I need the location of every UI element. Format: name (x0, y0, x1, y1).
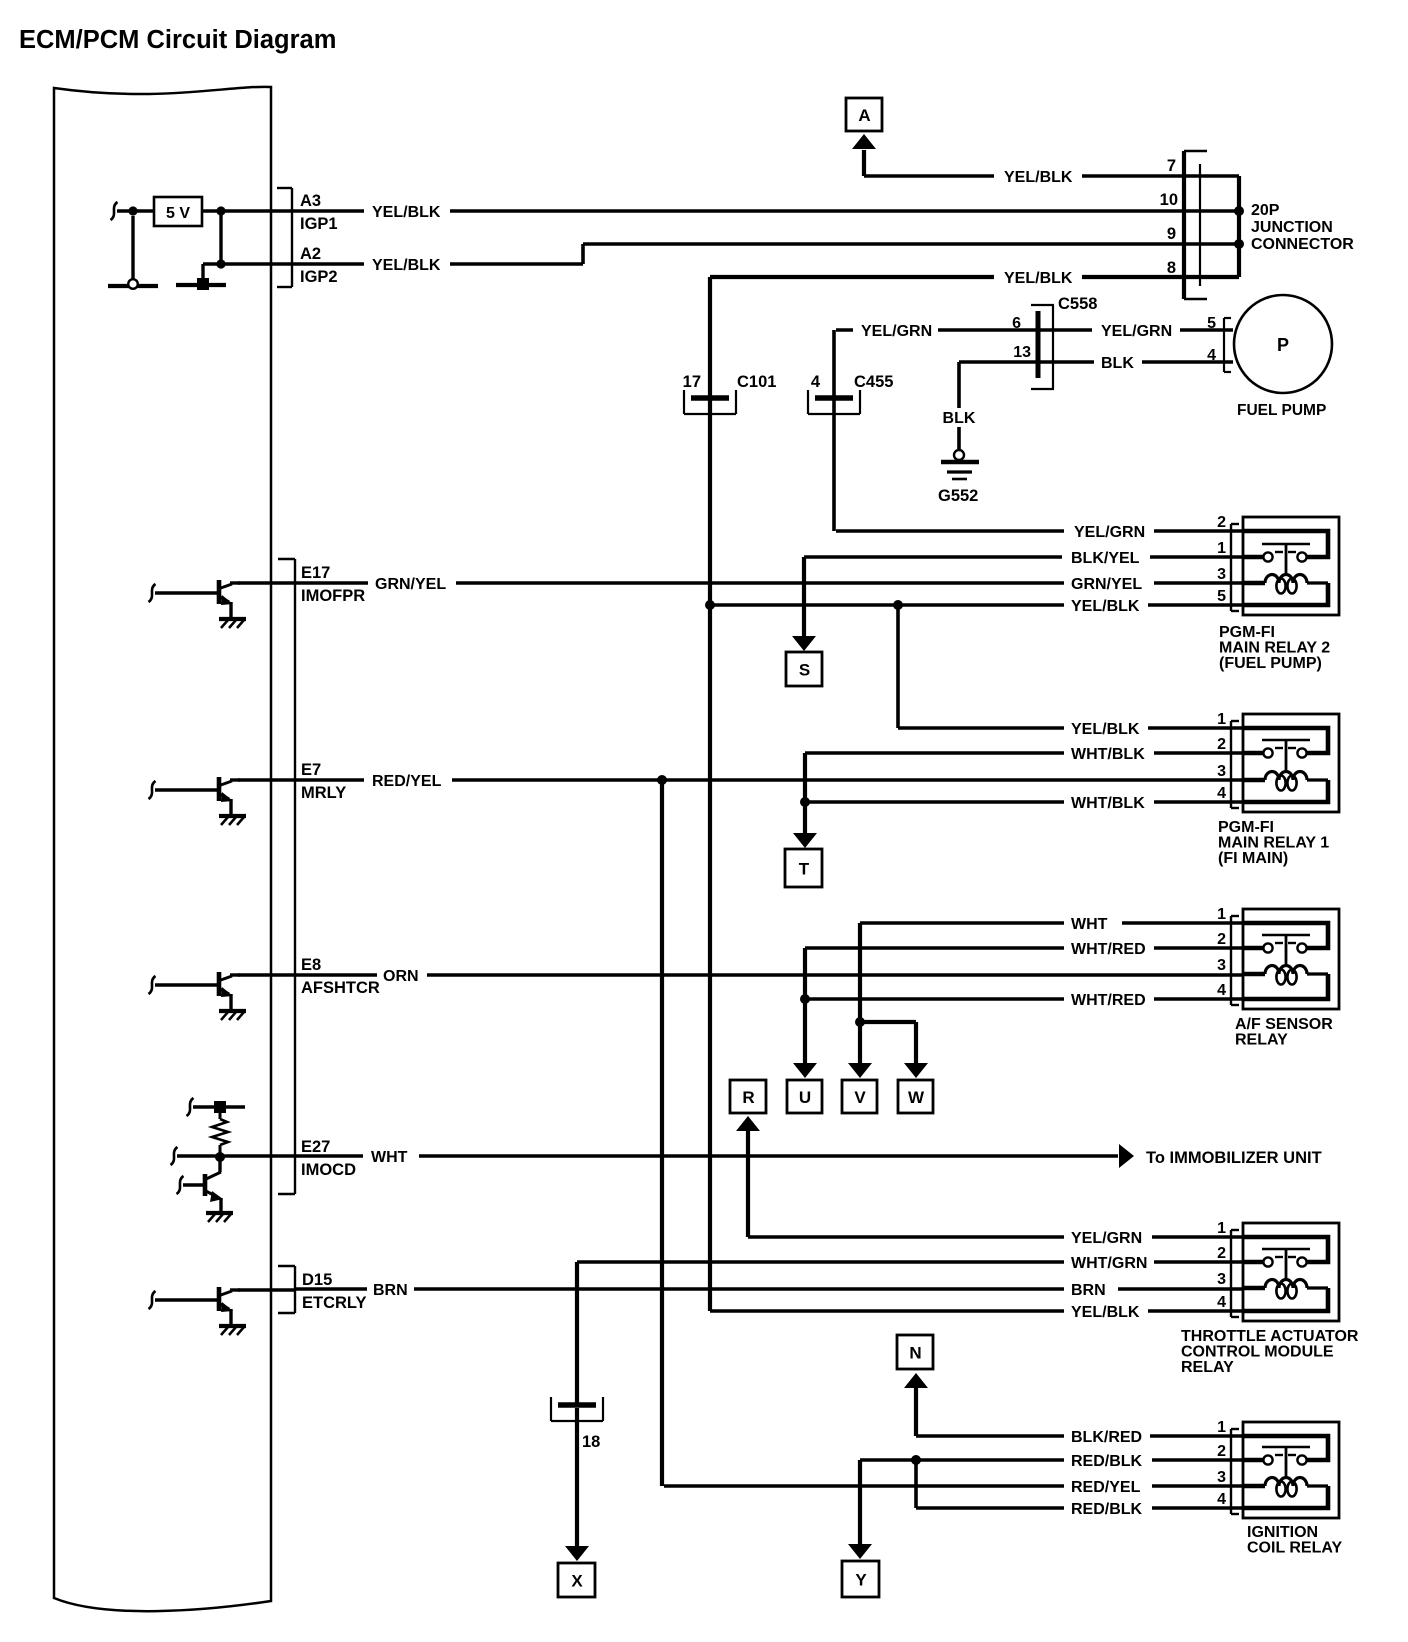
svg-text:(FUEL PUMP): (FUEL PUMP) (1219, 655, 1322, 672)
junction dot (216, 206, 225, 215)
svg-text:13: 13 (1013, 344, 1031, 361)
svg-text:CONTROL MODULE: CONTROL MODULE (1181, 1344, 1334, 1361)
wire IGP2 branch (219, 211, 222, 264)
svg-text:2: 2 (1217, 1443, 1226, 1460)
wire to node W (860, 1020, 916, 1024)
wire WHT E27 to immobilizer (296, 1154, 363, 1158)
svg-text:WHT/RED: WHT/RED (1071, 941, 1146, 958)
wire YEL/GRN to C558 pin 6 (836, 328, 853, 332)
svg-text:YEL/BLK: YEL/BLK (372, 257, 441, 274)
svg-text:3: 3 (1217, 957, 1226, 974)
fuel pump connector bracket (1223, 318, 1225, 372)
svg-text:10: 10 (1160, 191, 1178, 209)
5V regulator box (154, 197, 202, 226)
wire YEL/GRN to relay2 pin 2 (836, 529, 1064, 533)
svg-text:IMOCD: IMOCD (301, 1161, 356, 1179)
svg-text:A3: A3 (300, 192, 321, 210)
arrow to immobilizer unit (1119, 1144, 1134, 1168)
svg-text:PGM-FI: PGM-FI (1218, 819, 1274, 836)
wire E17 pin line (238, 581, 296, 585)
ground at Q4 (206, 1211, 233, 1215)
svg-text:1: 1 (1217, 1220, 1226, 1237)
svg-text:R: R (742, 1088, 754, 1107)
connector C558 (1031, 295, 1097, 389)
svg-text:3: 3 (1217, 763, 1226, 780)
svg-text:ORN: ORN (383, 968, 419, 985)
svg-text:W: W (908, 1088, 925, 1107)
junction dot (215, 1152, 225, 1162)
connector 18 (551, 1397, 603, 1421)
wire WHT/BLK to relay1 pin 4 (805, 800, 1064, 804)
junction dot (855, 1017, 865, 1027)
svg-text:5: 5 (1207, 315, 1216, 332)
svg-text:2: 2 (1217, 514, 1226, 531)
node U box (787, 1080, 822, 1113)
svg-text:A/F SENSOR: A/F SENSOR (1235, 1016, 1333, 1033)
svg-text:4: 4 (1217, 982, 1226, 999)
wire YEL/GRN to node R (746, 1131, 750, 1237)
wire RED/YEL to ignition relay pin 3 (664, 1484, 1064, 1488)
svg-text:2: 2 (1217, 736, 1226, 753)
node Y box (842, 1561, 879, 1597)
node S box (786, 652, 822, 686)
ground G552 (954, 450, 964, 460)
wire A3 YEL/BLK to junction pin 10 (296, 209, 364, 213)
svg-text:WHT/GRN: WHT/GRN (1071, 1255, 1147, 1272)
svg-text:IMOFPR: IMOFPR (301, 587, 365, 605)
svg-text:MRLY: MRLY (301, 784, 346, 802)
ground at Q1 (E17 IMOFPR driver) (219, 617, 246, 621)
svg-text:3: 3 (1217, 566, 1226, 583)
wire WHT/RED to A/F relay pin 4 (805, 997, 1064, 1001)
svg-text:YEL/GRN: YEL/GRN (1074, 524, 1145, 541)
svg-text:RED/BLK: RED/BLK (1071, 1501, 1143, 1518)
svg-text:YEL/GRN: YEL/GRN (1071, 1230, 1142, 1247)
junction dot (216, 259, 225, 268)
svg-text:C101: C101 (737, 373, 776, 391)
wire C455 vertical YEL/GRN (832, 330, 836, 531)
svg-text:BLK: BLK (943, 410, 976, 427)
svg-text:E7: E7 (301, 761, 321, 779)
wire 5V left feed (111, 202, 118, 220)
svg-text:WHT/RED: WHT/RED (1071, 992, 1146, 1009)
wire WHT to A/F relay pin 1 (860, 921, 1064, 925)
svg-text:20P: 20P (1251, 202, 1280, 219)
svg-text:N: N (909, 1344, 921, 1363)
connector C455 (808, 373, 893, 414)
svg-text:E17: E17 (301, 564, 330, 582)
svg-text:E8: E8 (301, 956, 321, 974)
svg-text:WHT/BLK: WHT/BLK (1071, 795, 1145, 812)
fuel pump P (1234, 295, 1332, 393)
connector bracket E17-E27 (294, 559, 296, 1194)
wire E7 pin line (238, 778, 296, 782)
wire to node V (858, 1022, 862, 1064)
wire BLK C558 pin 13 (959, 360, 1053, 364)
svg-text:D15: D15 (302, 1271, 332, 1289)
svg-text:YEL/BLK: YEL/BLK (1004, 169, 1073, 186)
svg-text:4: 4 (1217, 785, 1226, 802)
wire BLK/YEL to relay2 pin 1 (804, 555, 1062, 559)
svg-text:P: P (1277, 335, 1289, 355)
svg-text:C558: C558 (1058, 295, 1097, 313)
node R box (730, 1080, 766, 1113)
svg-text:17: 17 (683, 373, 701, 391)
wire YEL/BLK junction pin 8 (710, 275, 994, 279)
svg-text:JUNCTION: JUNCTION (1251, 219, 1333, 236)
relay THROTTLE ACTUATOR CONTROL MODULE RELAY (1181, 1220, 1359, 1376)
transistor Q1 (E17 IMOFPR driver) (149, 580, 247, 628)
svg-text:S: S (799, 661, 810, 680)
relay PGM-FI MAIN RELAY 1 (1217, 711, 1339, 867)
svg-text:BRN: BRN (1071, 1282, 1106, 1299)
svg-text:2: 2 (1217, 931, 1226, 948)
connector bracket D15 (294, 1266, 296, 1313)
junction dot (128, 206, 137, 215)
wire to node T (803, 753, 807, 835)
junction dot (893, 600, 903, 610)
wire down to connector 18 (575, 1262, 579, 1403)
wire WHT/RED to A/F relay pin 2 (805, 946, 1064, 950)
svg-text:7: 7 (1167, 157, 1176, 175)
node W box (898, 1080, 933, 1113)
ground (right, square) (176, 283, 226, 287)
svg-text:8: 8 (1167, 259, 1176, 277)
ground (left, circle) (108, 284, 158, 288)
svg-text:A2: A2 (300, 245, 321, 263)
wire BLK/RED to node N (914, 1388, 918, 1436)
svg-text:YEL/GRN: YEL/GRN (861, 323, 932, 340)
wire YEL/BLK bus vertical (708, 277, 712, 1311)
wire WHT/GRN to throttle relay pin 2 (577, 1260, 1064, 1264)
svg-text:RELAY: RELAY (1235, 1032, 1288, 1049)
svg-text:E27: E27 (301, 1138, 330, 1156)
svg-text:3: 3 (1217, 1271, 1226, 1288)
node T box (785, 849, 822, 887)
svg-text:5: 5 (1217, 588, 1226, 605)
svg-text:YEL/BLK: YEL/BLK (1071, 721, 1140, 738)
svg-text:RED/YEL: RED/YEL (1071, 1479, 1141, 1496)
svg-text:WHT: WHT (1071, 916, 1108, 933)
wire RED/BLK to ignition relay pin 4 (916, 1506, 1064, 1510)
svg-text:4: 4 (811, 373, 821, 391)
wire to node X (565, 1546, 589, 1561)
ground at Q3 (E8 AFSHTCR driver) (219, 1009, 246, 1013)
wire YEL/BLK branch to relay1 pin1 (896, 605, 900, 728)
wire WHT branch down (858, 923, 862, 1022)
junction dot (911, 1455, 921, 1465)
svg-text:GRN/YEL: GRN/YEL (1071, 576, 1142, 593)
svg-text:RED/BLK: RED/BLK (1071, 1453, 1143, 1470)
connector bracket A3/A2 (291, 188, 293, 287)
wire RED/BLK to ignition relay pin 2 (860, 1458, 1064, 1462)
wire RED/YEL bus vertical (660, 780, 664, 1486)
junction dot (800, 994, 810, 1004)
pull-up stub E27 (187, 1098, 194, 1116)
svg-text:C455: C455 (854, 373, 893, 391)
svg-text:YEL/BLK: YEL/BLK (1071, 1304, 1140, 1321)
svg-text:Y: Y (855, 1571, 867, 1590)
svg-text:YEL/BLK: YEL/BLK (1071, 598, 1140, 615)
wire RED/YEL E7 to relay1 pin 3 (296, 778, 364, 782)
svg-text:COIL RELAY: COIL RELAY (1247, 1540, 1342, 1557)
svg-text:U: U (799, 1088, 811, 1107)
svg-text:4: 4 (1217, 1294, 1226, 1311)
node V box (842, 1080, 877, 1113)
svg-text:9: 9 (1167, 225, 1176, 243)
wire YEL/BLK to relay1 pin 1 (898, 726, 1064, 730)
transistor Q2 (E7 MRLY driver) (149, 777, 247, 825)
svg-text:BLK: BLK (1101, 355, 1134, 372)
wire to node Y (858, 1460, 862, 1545)
svg-text:BRN: BRN (373, 1282, 408, 1299)
wire E27 pin line (171, 1147, 178, 1165)
svg-text:1: 1 (1217, 906, 1226, 923)
svg-text:ETCRLY: ETCRLY (302, 1294, 367, 1312)
svg-text:YEL/BLK: YEL/BLK (372, 204, 441, 221)
svg-text:YEL/GRN: YEL/GRN (1101, 323, 1172, 340)
svg-text:WHT/BLK: WHT/BLK (1071, 746, 1145, 763)
connector C101 (683, 373, 777, 414)
wire WHT/BLK to relay1 pin 2 (805, 751, 1064, 755)
svg-text:1: 1 (1217, 540, 1226, 557)
svg-text:1: 1 (1217, 711, 1226, 728)
svg-text:AFSHTCR: AFSHTCR (301, 979, 380, 997)
svg-text:IGNITION: IGNITION (1247, 1524, 1318, 1541)
svg-text:4: 4 (1207, 347, 1216, 364)
ground at Q5 (D15 ETCRLY driver) (219, 1324, 246, 1328)
wire YEL/BLK to throttle relay pin 4 (710, 1309, 1064, 1313)
svg-text:IGP2: IGP2 (300, 268, 338, 286)
junction dot pin10 (1234, 206, 1244, 216)
wire GRN/YEL E17 to relay2 pin 3 (296, 581, 368, 585)
wire BRN D15 to throttle relay pin 3 (296, 1287, 367, 1291)
svg-text:MAIN RELAY 1: MAIN RELAY 1 (1218, 835, 1329, 852)
wire to node S (802, 557, 806, 638)
svg-text:PGM-FI: PGM-FI (1219, 624, 1275, 641)
wire to node A with arrow (862, 150, 866, 176)
svg-text:T: T (799, 860, 810, 879)
svg-text:5 V: 5 V (166, 205, 190, 222)
wire BLK to ground G552 (957, 362, 961, 408)
svg-text:6: 6 (1012, 315, 1021, 332)
svg-text:MAIN RELAY 2: MAIN RELAY 2 (1219, 640, 1330, 657)
svg-text:To IMMOBILIZER UNIT: To IMMOBILIZER UNIT (1146, 1149, 1322, 1167)
wire YEL/GRN to throttle relay pin 1 (748, 1235, 1064, 1239)
svg-text:ECM/PCM Circuit Diagram: ECM/PCM Circuit Diagram (19, 26, 336, 54)
relay IGNITION COIL RELAY (1217, 1419, 1342, 1557)
wire YEL/BLK junction pin 7 (864, 174, 994, 178)
svg-text:BLK/YEL: BLK/YEL (1071, 550, 1140, 567)
resistor R1 (E27 pull-up) (219, 1107, 222, 1119)
svg-text:GRN/YEL: GRN/YEL (375, 576, 446, 593)
ground at Q2 (E7 MRLY driver) (219, 814, 246, 818)
node X box (558, 1563, 595, 1597)
wire to node U (803, 948, 807, 1064)
svg-text:CONNECTOR: CONNECTOR (1251, 236, 1354, 253)
wire BLK C558 pin4 to fuel pump (1053, 360, 1094, 364)
svg-text:A: A (858, 106, 870, 125)
svg-text:RED/YEL: RED/YEL (372, 773, 442, 790)
svg-text:3: 3 (1217, 1469, 1226, 1486)
svg-text:2: 2 (1217, 1245, 1226, 1262)
svg-text:WHT: WHT (371, 1149, 408, 1166)
wire YEL/GRN C558 pin5 to fuel pump (1053, 328, 1092, 332)
wire BLK/RED to ignition relay pin 1 (916, 1434, 1064, 1438)
wire D15 pin line (238, 1288, 296, 1292)
junction dot (800, 797, 810, 807)
wire 5V to IGP1 pin (202, 209, 296, 212)
junction dot (657, 775, 667, 785)
svg-text:18: 18 (582, 1433, 600, 1451)
relay PGM-FI MAIN RELAY 2 (1217, 514, 1339, 672)
svg-text:(FI MAIN): (FI MAIN) (1218, 850, 1288, 867)
svg-text:G552: G552 (938, 487, 978, 505)
svg-text:1: 1 (1217, 1419, 1226, 1436)
transistor Q5 (D15 ETCRLY driver) (149, 1287, 247, 1335)
transistor Q3 (E8 AFSHTCR driver) (149, 972, 247, 1020)
wire RED/BLK branch pin4 (914, 1460, 918, 1508)
svg-text:RELAY: RELAY (1181, 1359, 1234, 1376)
junction dot (705, 600, 715, 610)
wire YEL/BLK to relay2 pin 5 (710, 603, 1064, 607)
svg-text:YEL/BLK: YEL/BLK (1004, 270, 1073, 287)
node N box (897, 1335, 933, 1369)
node A box (846, 98, 882, 131)
transistor Q4 (E27 IMOCD driver) (177, 1157, 234, 1222)
svg-text:X: X (571, 1572, 583, 1591)
svg-text:4: 4 (1217, 1491, 1226, 1508)
ECM/PCM module box (54, 87, 271, 1611)
wire A2 YEL/BLK to junction pin 9 (296, 262, 364, 266)
svg-text:BLK/RED: BLK/RED (1071, 1429, 1142, 1446)
svg-text:IGP1: IGP1 (300, 215, 338, 233)
svg-text:FUEL PUMP: FUEL PUMP (1237, 402, 1326, 419)
relay A/F SENSOR RELAY (1217, 906, 1339, 1049)
wire ORN E8 to A/F relay pin 3 (296, 973, 377, 977)
wire E8 pin line (238, 973, 296, 977)
svg-text:V: V (854, 1088, 866, 1107)
junction dot pin9 (1234, 239, 1244, 249)
20P junction connector (1160, 151, 1355, 299)
svg-text:THROTTLE ACTUATOR: THROTTLE ACTUATOR (1181, 1328, 1359, 1345)
